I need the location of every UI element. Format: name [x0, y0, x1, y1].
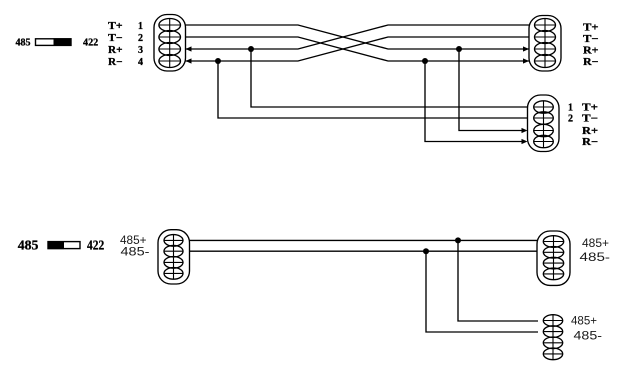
- wire net 485- : J4 to J5: [190, 250, 538, 252]
- svg-text:R−: R−: [582, 137, 598, 148]
- wire net B: J1 T- to J2 R- (crossover): [186, 37, 530, 61]
- svg-text:4: 4: [138, 57, 143, 68]
- svg-text:R−: R−: [583, 57, 599, 68]
- svg-text:3: 3: [138, 45, 143, 56]
- connector J5 (bottom-right 4-terminal block): [537, 231, 570, 285]
- svg-text:T+: T+: [583, 23, 599, 34]
- wire net A branch to J3 R+: [459, 49, 524, 131]
- junction on net C: [248, 46, 254, 52]
- wire net C branch to J3 T+: [251, 49, 528, 107]
- connector J1 (left 4-terminal block): [154, 15, 186, 72]
- svg-text:T−: T−: [108, 33, 123, 44]
- wire net 485+ branch to J6: [458, 240, 538, 321]
- wire net C: J2 T+ to J1 R+ (crossover): [186, 25, 530, 49]
- svg-text:T+: T+: [108, 21, 123, 32]
- svg-text:485-: 485-: [121, 245, 150, 259]
- svg-text:422: 422: [83, 37, 99, 49]
- junction on net B: [422, 58, 428, 64]
- svg-text:R+: R+: [582, 126, 598, 137]
- svg-text:1: 1: [138, 21, 143, 32]
- connector J6 (bottom third terminal block, no shell): [543, 315, 562, 360]
- svg-text:R+: R+: [108, 45, 123, 56]
- connector J4 (bottom-left 4-terminal block): [158, 230, 190, 284]
- arrow into J1 R-: [186, 58, 192, 63]
- switch SW2 (485/422 selector, set to 485): [48, 241, 81, 249]
- svg-text:485-: 485-: [574, 329, 603, 343]
- svg-text:485: 485: [18, 239, 39, 254]
- arrow into J3 R+: [522, 128, 528, 133]
- wire net A: J1 T+ to J2 R+ (crossover): [186, 25, 530, 49]
- junction on net 485+: [455, 237, 461, 243]
- arrow into J2 R+: [523, 46, 529, 51]
- svg-text:T−: T−: [582, 114, 598, 125]
- arrow into J3 R-: [522, 139, 528, 144]
- svg-text:485-: 485-: [580, 250, 611, 264]
- wire net D branch to J3 T-: [218, 61, 528, 118]
- svg-text:T+: T+: [582, 103, 598, 114]
- junction on net A: [456, 46, 462, 52]
- wire net B branch to J3 R-: [425, 61, 524, 142]
- connector J2 (top-right 4-terminal block): [529, 16, 561, 72]
- svg-text:422: 422: [87, 239, 104, 254]
- arrow into J1 R+: [186, 46, 192, 51]
- svg-text:2: 2: [138, 33, 143, 44]
- svg-text:485: 485: [16, 37, 31, 49]
- wire net 485+ : J4 to J5: [190, 239, 538, 241]
- svg-text:R+: R+: [583, 46, 599, 57]
- switch SW1 (485/422 selector, set to 422): [36, 38, 72, 46]
- junction on net 485-: [423, 248, 429, 254]
- arrow into J2 R-: [523, 58, 529, 63]
- svg-text:R−: R−: [108, 57, 123, 68]
- wire net D: J2 T- to J1 R- (crossover): [186, 37, 530, 61]
- connector J3 (second slave 4-terminal block): [528, 95, 560, 152]
- svg-text:485+: 485+: [582, 236, 609, 250]
- junction on net D: [215, 58, 221, 64]
- svg-text:1: 1: [568, 103, 573, 114]
- wire net 485- branch to J6: [426, 251, 538, 332]
- svg-text:T−: T−: [583, 34, 599, 45]
- svg-text:485+: 485+: [571, 314, 597, 328]
- svg-text:2: 2: [568, 114, 573, 125]
